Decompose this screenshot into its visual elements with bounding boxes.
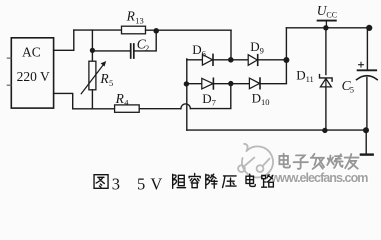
diode D7 (202, 78, 213, 89)
wire C2 right lead to rail (135, 31, 157, 51)
svg-text:7: 7 (212, 98, 216, 108)
svg-text:5: 5 (109, 78, 113, 88)
caption char 路 (262, 175, 274, 188)
svg-text:3: 3 (112, 174, 120, 193)
resistor R4 body (115, 105, 140, 112)
wire AC neutral out (54, 93, 73, 108)
bottom rail wire (187, 129, 366, 131)
node dot R5/C2 tap (90, 48, 95, 53)
caption char 电 (246, 174, 255, 186)
bridge top row wire (187, 59, 287, 61)
diode D9 (248, 55, 257, 66)
svg-text:R: R (99, 71, 109, 86)
svg-text:D: D (202, 91, 211, 106)
wire to bottom-mid node (190, 84, 230, 109)
resistor R5 arrow (81, 64, 104, 94)
capacitor C5 column top (366, 28, 368, 70)
wire R5 column bottom (91, 90, 93, 109)
svg-text:R: R (115, 91, 125, 106)
capacitor C2 right plate (133, 44, 135, 58)
node dot C5 bottom / ground (363, 127, 369, 133)
wire AC live out to top rail (54, 30, 74, 50)
caption char 降 (206, 174, 217, 188)
caption char 阻 (173, 174, 186, 188)
caption char 图 (94, 175, 108, 189)
svg-text:D: D (252, 90, 261, 105)
wire R5 column top (91, 30, 93, 61)
node dot bridge bottom-mid (228, 81, 233, 86)
svg-text:6: 6 (202, 49, 206, 59)
wire riser to bridge top-mid node (230, 30, 232, 60)
svg-text:11: 11 (306, 74, 314, 84)
wire C2 left lead (92, 50, 130, 52)
watermark text 电子发烧友 (gray layer) (279, 154, 358, 169)
node dot top-right corner (366, 25, 372, 31)
bridge left column (186, 59, 188, 130)
svg-text:5: 5 (350, 84, 354, 94)
svg-text:CC: CC (326, 10, 337, 19)
Ucc supply terminal (318, 20, 336, 22)
AC terminal dash upper (7, 57, 11, 59)
diode D10 (249, 78, 259, 89)
bridge bottom row wire (186, 83, 286, 85)
capacitor C5 curved plate (357, 76, 378, 80)
AC source box (11, 38, 53, 108)
node dot bridge bottom-left (184, 81, 189, 86)
capacitor C5 column bottom (366, 78, 368, 131)
wire top rail right segment (146, 29, 232, 31)
WATERMARK (238, 144, 369, 186)
ground lead (365, 130, 367, 154)
watermark logo circle sketch (238, 144, 273, 178)
watermark text 电子发烧友 (white emboss layer) (281, 155, 360, 170)
AC terminal dash lower (7, 84, 11, 86)
caption char 容 (189, 173, 200, 187)
svg-text:D: D (192, 42, 201, 57)
svg-text:V: V (150, 174, 162, 193)
svg-text:4: 4 (124, 98, 129, 108)
svg-text:R: R (126, 9, 136, 24)
resistor R13 body (122, 26, 146, 34)
caption char 压 (223, 176, 237, 188)
resistor R5 body (adjustable) (89, 61, 96, 90)
wire R4 right lead (139, 108, 181, 110)
svg-text:www.elecfans.com: www.elecfans.com (270, 171, 369, 185)
capacitor C2 left plate (130, 44, 132, 58)
Ucc rail wire (286, 27, 369, 29)
node dot bridge top-right (283, 57, 289, 63)
ground symbol (361, 153, 373, 155)
diode D6 (202, 55, 212, 66)
zener D11 symbol (320, 75, 333, 82)
svg-text:D: D (296, 68, 305, 83)
svg-text:220 V: 220 V (17, 69, 50, 84)
svg-text:AC: AC (22, 45, 41, 60)
node dot D11 top (323, 25, 328, 30)
zener D11 column (325, 28, 327, 75)
wire top rail left segment (74, 29, 122, 31)
svg-text:13: 13 (135, 16, 144, 26)
CAPTION 图3 5V阻容降压电路 (94, 173, 273, 193)
node dot D11 bottom (322, 128, 327, 133)
bridge right column (285, 28, 287, 83)
wire R4 left lead (73, 108, 115, 110)
svg-text:9: 9 (260, 46, 264, 56)
capacitor C5 plus mark (359, 62, 364, 67)
svg-text:5: 5 (137, 174, 145, 193)
svg-text:D: D (250, 39, 259, 54)
svg-text:10: 10 (261, 97, 270, 107)
node dot R13/C2 junction (153, 28, 159, 34)
svg-text:2: 2 (145, 43, 149, 53)
node dot bridge top-mid (228, 57, 234, 63)
wire hop over left bridge column (181, 104, 191, 109)
capacitor C5 top plate (358, 69, 377, 71)
